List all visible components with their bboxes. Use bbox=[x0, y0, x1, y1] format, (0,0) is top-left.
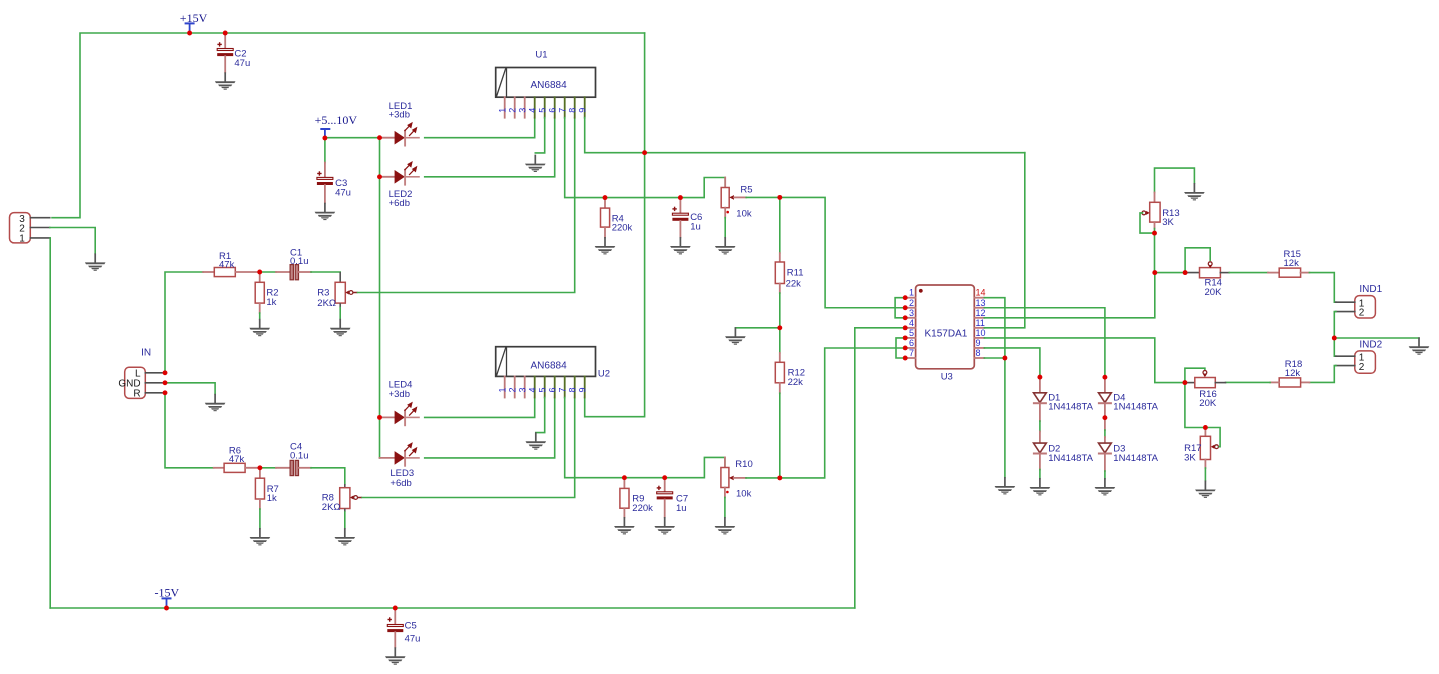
svg-text:2: 2 bbox=[909, 298, 914, 308]
svg-text:1u: 1u bbox=[690, 221, 701, 232]
resistor R1 bbox=[203, 251, 260, 277]
diode D3 1N4148TA bbox=[1098, 418, 1159, 479]
ground below pin8 net bbox=[995, 477, 1016, 494]
ground below R10 bbox=[715, 517, 736, 534]
node R13-R14 row junction bbox=[1152, 270, 1157, 275]
ground below R7 bbox=[250, 528, 271, 545]
potentiometer R5 bbox=[721, 178, 752, 238]
svg-text:5: 5 bbox=[909, 328, 914, 338]
node R13 bottom junction bbox=[1152, 231, 1157, 236]
svg-text:R11: R11 bbox=[787, 268, 804, 279]
node +5...10V junction bbox=[322, 136, 327, 141]
node D4 top junction bbox=[1102, 375, 1107, 380]
op-amp U2 AN6884 bbox=[496, 347, 610, 380]
ground for connector pin 2 bbox=[85, 253, 106, 270]
wire U1 pin 5 to ground bbox=[535, 118, 544, 153]
potentiometer R14 bbox=[1185, 262, 1229, 298]
svg-text:C5: C5 bbox=[405, 621, 417, 632]
wire R7 to ground bbox=[259, 509, 261, 529]
U1 pin numbers bbox=[497, 108, 587, 113]
wire IN GND pin to ground bbox=[165, 383, 215, 394]
wire R5 junction to U3 pin 2 bbox=[780, 197, 905, 307]
svg-text:8: 8 bbox=[567, 387, 577, 392]
U2 pin stubs 4-9 bbox=[535, 376, 585, 397]
node R1-R2 junction bbox=[257, 270, 262, 275]
wire U3 pin 4 to -15V rail bbox=[855, 328, 905, 608]
svg-text:47u: 47u bbox=[234, 58, 250, 69]
ground below R17 bbox=[1195, 481, 1216, 498]
wire R17 wiper loop bbox=[1205, 428, 1220, 447]
wire LED2 cathode to U1 pin 6 bbox=[425, 118, 555, 177]
svg-text:8: 8 bbox=[976, 348, 981, 358]
svg-text:2: 2 bbox=[507, 387, 517, 392]
ground for IND common bbox=[1409, 337, 1430, 354]
svg-text:9: 9 bbox=[577, 108, 587, 113]
svg-text:10k: 10k bbox=[736, 209, 752, 220]
node R10-R12 junction bbox=[777, 475, 782, 480]
svg-text:2: 2 bbox=[507, 108, 517, 113]
wire IND1 pin 2 to common junction bbox=[1334, 312, 1336, 338]
ground for U2 pin 5 bbox=[526, 432, 547, 449]
node C6 top junction bbox=[678, 195, 683, 200]
resistor R4 bbox=[601, 198, 633, 238]
wire +15V rail left segment to connector pin 3 bbox=[52, 33, 190, 218]
svg-text:4: 4 bbox=[527, 108, 537, 113]
svg-text:6: 6 bbox=[909, 338, 914, 348]
node R16 left junction bbox=[1182, 380, 1187, 385]
svg-text:2: 2 bbox=[1359, 308, 1365, 319]
resistor R6 bbox=[214, 445, 260, 472]
supply +5...10V bbox=[315, 113, 358, 137]
node R9 top junction bbox=[622, 475, 627, 480]
svg-text:3: 3 bbox=[517, 108, 527, 113]
node IN L junction bbox=[163, 370, 168, 375]
svg-text:R5: R5 bbox=[740, 184, 752, 195]
U2 pin numbers bbox=[497, 387, 587, 392]
svg-text:U2: U2 bbox=[598, 369, 610, 380]
wire LED4 cathode to U2 pin 4 bbox=[425, 398, 535, 418]
svg-text:U1: U1 bbox=[535, 50, 547, 61]
svg-text:+5...10V: +5...10V bbox=[315, 113, 358, 127]
capacitor C4 bbox=[276, 442, 311, 476]
svg-text:3K: 3K bbox=[1162, 217, 1174, 228]
ground below C3 bbox=[315, 203, 336, 220]
svg-text:1k: 1k bbox=[267, 493, 277, 504]
svg-text:6: 6 bbox=[547, 108, 557, 113]
svg-text:0.1u: 0.1u bbox=[290, 256, 309, 267]
wire C3 feed bbox=[324, 138, 326, 163]
node IN R junction bbox=[163, 390, 168, 395]
U3 right pin numbers 14-8 bbox=[976, 288, 986, 358]
wire R16 wiper loop bbox=[1185, 368, 1205, 382]
svg-text:20K: 20K bbox=[1205, 287, 1223, 298]
wire mid junction to ground bbox=[735, 327, 779, 329]
svg-text:1u: 1u bbox=[676, 503, 687, 514]
ground below D3 bbox=[1095, 478, 1116, 495]
ground below R4 bbox=[595, 237, 616, 254]
ground below C7 bbox=[654, 517, 675, 534]
potentiometer R17 bbox=[1184, 428, 1218, 481]
capacitor C5 bbox=[387, 608, 420, 647]
wire U2 pin 7 to R9 C7 R10 bbox=[565, 398, 725, 478]
wire U3 pin 13 to D4 bbox=[984, 308, 1105, 377]
svg-text:220k: 220k bbox=[632, 503, 653, 514]
wire +15V top rail bbox=[190, 32, 645, 34]
wire U3 pin 10 to R16 bbox=[984, 338, 1185, 383]
svg-text:1N4148TA: 1N4148TA bbox=[1048, 402, 1093, 413]
node D1 top junction bbox=[1037, 375, 1042, 380]
resistor R9 bbox=[620, 478, 653, 518]
U1 pin stubs 1-3 bbox=[505, 97, 525, 118]
svg-text:1: 1 bbox=[19, 234, 25, 245]
wire C1 to R3 top bbox=[311, 271, 340, 273]
svg-text:2KΩ: 2KΩ bbox=[322, 502, 341, 513]
wire U3 pin 14 to pin 8 and ground bbox=[984, 298, 1005, 478]
node C2 top junction bbox=[223, 31, 228, 36]
resistor R11 bbox=[775, 197, 803, 327]
wire R14 right to R15 bbox=[1229, 272, 1268, 274]
svg-text:7: 7 bbox=[909, 348, 914, 358]
node D4-D3 junction bbox=[1102, 415, 1107, 420]
svg-text:11: 11 bbox=[976, 318, 985, 328]
wire +5...10V to LED anode rail bbox=[325, 137, 380, 139]
IC U3 K157DA1 bbox=[916, 285, 975, 383]
resistor R7 bbox=[255, 468, 278, 509]
svg-text:1k: 1k bbox=[266, 297, 276, 308]
svg-text:R: R bbox=[133, 389, 140, 400]
capacitor C6 bbox=[672, 198, 702, 238]
svg-text:+3db: +3db bbox=[389, 110, 410, 121]
svg-text:3: 3 bbox=[517, 387, 527, 392]
svg-text:10: 10 bbox=[976, 328, 986, 338]
wire common junction to IND2 pin 1 bbox=[1334, 338, 1336, 356]
LED LED2 bbox=[380, 162, 420, 209]
svg-text:13: 13 bbox=[976, 298, 986, 308]
svg-text:1N4148TA: 1N4148TA bbox=[1113, 453, 1158, 464]
ground for U1 pin 5 bbox=[525, 155, 546, 172]
svg-text:20K: 20K bbox=[1199, 398, 1217, 409]
wire U3 pin 12 to R13-R14 junction bbox=[984, 273, 1155, 318]
LED LED1 bbox=[380, 101, 420, 147]
ground below C5 bbox=[385, 647, 406, 664]
wire R8 wiper to U2 pin 8 bbox=[362, 398, 575, 498]
supply +15V bbox=[180, 11, 208, 32]
wire IND2 pin 2 to R18 bbox=[1309, 366, 1336, 383]
ground below R5 bbox=[715, 237, 736, 254]
node U3 pin dots 1-7 bbox=[903, 295, 908, 360]
node C5 top junction bbox=[393, 606, 398, 611]
svg-text:12: 12 bbox=[976, 308, 986, 318]
svg-text:7: 7 bbox=[557, 108, 567, 113]
svg-text:22k: 22k bbox=[786, 278, 802, 289]
svg-text:IND2: IND2 bbox=[1359, 339, 1382, 350]
svg-text:1: 1 bbox=[497, 387, 507, 392]
svg-text:1: 1 bbox=[497, 108, 507, 113]
connector IND1 bbox=[1336, 284, 1383, 319]
ground below R8 bbox=[335, 528, 356, 545]
wire junction to R14 left bbox=[1155, 272, 1185, 274]
wire C4 to R8 top bbox=[311, 468, 345, 484]
svg-text:1: 1 bbox=[909, 288, 914, 298]
ground below R3 bbox=[330, 319, 351, 336]
svg-text:1N4148TA: 1N4148TA bbox=[1048, 453, 1093, 464]
wire R1 junction to C1 bbox=[260, 271, 276, 273]
svg-text:+6db: +6db bbox=[390, 478, 411, 489]
svg-text:9: 9 bbox=[976, 338, 981, 348]
node IN GND junction bbox=[163, 380, 168, 385]
ground for R13 top bbox=[1184, 183, 1205, 200]
svg-text:22k: 22k bbox=[788, 377, 804, 388]
wire R13 junction down to R14 row bbox=[1154, 233, 1156, 273]
LED LED4 bbox=[380, 380, 420, 427]
wire R2 to ground bbox=[259, 313, 261, 319]
potentiometer R13 bbox=[1142, 193, 1180, 234]
wire U3 pin 8 stub to junction bbox=[984, 357, 1005, 359]
wire U2 pin 5 to ground bbox=[536, 398, 545, 433]
ground below C2 bbox=[215, 72, 236, 89]
wire U1 pin 9 to +15V branch rail bbox=[585, 118, 1025, 153]
svg-text:2KΩ: 2KΩ bbox=[317, 298, 336, 309]
svg-text:+6db: +6db bbox=[389, 198, 410, 209]
wire R16 junction down to R17 bbox=[1185, 383, 1206, 428]
potentiometer R16 bbox=[1185, 371, 1226, 410]
wire R10 junction to U3 pin 6 bbox=[780, 348, 905, 478]
node R4 top junction bbox=[603, 195, 608, 200]
svg-text:9: 9 bbox=[577, 387, 587, 392]
svg-text:12k: 12k bbox=[1284, 258, 1300, 269]
svg-text:3K: 3K bbox=[1184, 452, 1196, 463]
connector IN bbox=[118, 347, 162, 399]
op-amp U1 AN6884 bbox=[496, 50, 596, 98]
potentiometer R8 bbox=[322, 484, 362, 528]
svg-text:R10: R10 bbox=[735, 459, 752, 470]
node LED4 anode junction bbox=[377, 415, 382, 420]
node +15V stem junction bbox=[187, 31, 192, 36]
wire vertical from top rail to U2 pin 9 bbox=[585, 33, 645, 417]
node IND common junction bbox=[1332, 336, 1337, 341]
wire R5 wiper to R11 top junction bbox=[746, 196, 780, 198]
U2 pin stubs 1-3 bbox=[505, 376, 525, 397]
wire U3 pins 5-7 bracket bbox=[896, 338, 905, 358]
wire common junction to ground bbox=[1334, 337, 1419, 339]
wire R13 wiper loop bbox=[1140, 213, 1155, 233]
svg-text:IN: IN bbox=[141, 347, 151, 358]
node C7 top junction bbox=[662, 475, 667, 480]
wire -15V bottom rail bbox=[50, 607, 855, 609]
wire U1 pin 7 to R4 C6 R5 bbox=[565, 118, 726, 198]
U3 left pin numbers 1-7 bbox=[909, 288, 914, 358]
wire R10 wiper to R12 bottom junction bbox=[746, 477, 780, 479]
wire R15 to IND1 pin 1 bbox=[1309, 273, 1336, 303]
svg-text:5: 5 bbox=[537, 387, 547, 392]
svg-text:AN6884: AN6884 bbox=[531, 80, 568, 91]
wire R13 top bracket to ground bbox=[1155, 168, 1195, 192]
ground below R9 bbox=[614, 517, 635, 534]
svg-text:12k: 12k bbox=[1285, 368, 1301, 379]
diode D1 1N4148TA bbox=[1033, 377, 1094, 443]
potentiometer R10 bbox=[721, 457, 753, 517]
svg-text:220k: 220k bbox=[612, 222, 633, 233]
svg-text:6: 6 bbox=[547, 387, 557, 392]
ground below D2 bbox=[1030, 478, 1051, 495]
svg-text:5: 5 bbox=[537, 108, 547, 113]
svg-text:7: 7 bbox=[557, 387, 567, 392]
ground below R2 bbox=[249, 319, 270, 336]
node R11-R12 mid junction bbox=[777, 325, 782, 330]
connector X1 bbox=[10, 213, 50, 245]
capacitor C7 bbox=[657, 478, 688, 518]
potentiometer R3 bbox=[317, 272, 357, 319]
resistor R12 bbox=[775, 328, 805, 478]
svg-text:2: 2 bbox=[1359, 362, 1365, 373]
node pin8-pin14 junction bbox=[1002, 356, 1007, 361]
wire R14 wiper loop bbox=[1185, 248, 1210, 273]
diode D2 1N4148TA bbox=[1033, 443, 1094, 478]
capacitor C2 bbox=[217, 33, 250, 72]
wire LED1 cathode to U1 pin 4 bbox=[425, 118, 535, 138]
wire LED3 cathode to U2 pin 6 bbox=[425, 398, 555, 458]
resistor R15 bbox=[1268, 249, 1309, 277]
svg-text:8: 8 bbox=[567, 108, 577, 113]
wire IN R pin down to R6 bbox=[165, 393, 214, 468]
svg-text:4: 4 bbox=[909, 318, 914, 328]
node LED1 anode junction bbox=[377, 135, 382, 140]
svg-text:IND1: IND1 bbox=[1359, 284, 1382, 295]
wire connector pin 1 to -15V rail bbox=[49, 238, 51, 608]
svg-text:K157DA1: K157DA1 bbox=[925, 329, 968, 340]
wire R18 to R16 bbox=[1226, 381, 1271, 383]
resistor R2 bbox=[255, 272, 278, 313]
node R5-R11 junction bbox=[777, 195, 782, 200]
node R14 left junction bbox=[1183, 270, 1188, 275]
resistor R18 bbox=[1270, 359, 1309, 387]
capacitor C3 bbox=[317, 163, 351, 203]
connector IND2 bbox=[1336, 339, 1383, 373]
U3 left pin stubs 1-7 bbox=[905, 298, 915, 358]
LED LED3 bbox=[380, 443, 420, 489]
node rail junction at x=644.6 bbox=[642, 150, 647, 155]
wire R3 wiper to U1 pin 8 bbox=[358, 118, 575, 293]
wire IN L pin to R1 bbox=[165, 272, 203, 373]
node R17 top junction bbox=[1203, 425, 1208, 430]
svg-text:1N4148TA: 1N4148TA bbox=[1113, 402, 1158, 413]
node LED2 anode junction bbox=[377, 174, 382, 179]
wire LED anode rail vertical bbox=[379, 138, 381, 458]
wire connector pin 2 to ground bbox=[50, 228, 95, 254]
capacitor C1 bbox=[276, 248, 311, 280]
node R6-R7 junction bbox=[257, 465, 262, 470]
ground below C6 bbox=[670, 237, 691, 254]
supply -15V bbox=[155, 586, 180, 608]
svg-text:AN6884: AN6884 bbox=[531, 360, 568, 371]
svg-text:10k: 10k bbox=[736, 488, 752, 499]
svg-text:3: 3 bbox=[909, 308, 914, 318]
wire R6 junction to C4 bbox=[260, 467, 276, 469]
ground at mid rail bbox=[725, 327, 746, 344]
svg-text:+3db: +3db bbox=[389, 389, 410, 400]
ground for IN connector bbox=[205, 394, 226, 411]
wire U3 pin 11 to +15V branch rail bbox=[984, 153, 1025, 328]
wire U3 pin 9 to D1 bbox=[984, 348, 1040, 377]
svg-text:0.1u: 0.1u bbox=[290, 451, 309, 462]
svg-text:47u: 47u bbox=[335, 187, 351, 198]
diode D4 1N4148TA bbox=[1098, 377, 1159, 418]
svg-text:47k: 47k bbox=[229, 454, 245, 465]
U3 right pin stubs 8-14 bbox=[974, 298, 984, 358]
svg-text:47u: 47u bbox=[405, 634, 421, 645]
svg-text:14: 14 bbox=[976, 288, 986, 298]
node -15V stem junction bbox=[164, 606, 169, 611]
U1 pin stubs 4-9 bbox=[535, 97, 585, 118]
svg-text:47k: 47k bbox=[219, 260, 235, 271]
svg-text:4: 4 bbox=[527, 387, 537, 392]
svg-text:U3: U3 bbox=[941, 372, 953, 383]
wire U3 pins 1-3 bracket bbox=[895, 298, 905, 318]
